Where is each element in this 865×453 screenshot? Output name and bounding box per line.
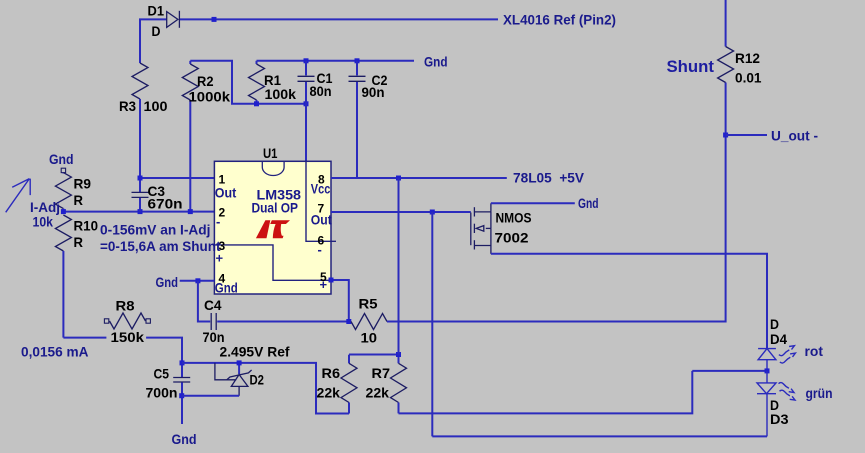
svg-text:-: - [318, 242, 322, 257]
svg-text:R2: R2 [197, 73, 214, 89]
svg-text:C4: C4 [204, 297, 222, 313]
resistor R7 [391, 355, 407, 414]
junction pin5 [329, 278, 334, 283]
LT logo [256, 220, 290, 238]
svg-text:7002: 7002 [495, 229, 529, 245]
wire [139, 99, 141, 192]
svg-text:670n: 670n [148, 196, 183, 212]
wire pin7 [331, 211, 471, 213]
wire pin7 branch down [431, 212, 433, 436]
svg-text:Gnd: Gnd [49, 151, 74, 167]
junction [254, 101, 259, 106]
svg-text:10k: 10k [33, 214, 54, 230]
wire U_out [726, 134, 767, 136]
svg-text:D2: D2 [250, 372, 265, 388]
svg-text:R10: R10 [74, 218, 99, 234]
svg-text:78L05 +5V: 78L05 +5V [513, 169, 585, 185]
svg-text:700n: 700n [146, 385, 178, 401]
resistor R9 [55, 173, 71, 212]
wire D2 anode [182, 395, 239, 397]
capacitor C2 [349, 61, 366, 178]
svg-text:NMOS: NMOS [496, 209, 532, 225]
svg-text:Gnd: Gnd [215, 280, 238, 296]
svg-text:XL4016 Ref (Pin2): XL4016 Ref (Pin2) [503, 12, 616, 28]
svg-text:rot: rot [805, 343, 824, 359]
svg-text:R9: R9 [74, 176, 92, 192]
wire R10 bottom row [63, 337, 106, 339]
junction [138, 209, 143, 214]
junction C5 top [180, 360, 185, 365]
wire after 150k [146, 338, 182, 377]
wire pin1 [140, 177, 214, 179]
svg-text:C5: C5 [154, 366, 170, 382]
junction [346, 319, 351, 324]
svg-text:grün: grün [806, 385, 833, 401]
resistor R3 [132, 63, 148, 99]
junction [188, 209, 193, 214]
wire C1 to U1 [305, 104, 307, 162]
resistor R1 [249, 61, 265, 104]
svg-text:D1: D1 [148, 3, 165, 19]
svg-text:R12: R12 [735, 50, 760, 66]
resistor R8 floating [104, 313, 150, 329]
wire R5 to shunt column [388, 135, 726, 322]
LED D4 arrows [779, 346, 796, 363]
wire shunt column mid [725, 83, 727, 136]
junction [212, 17, 217, 22]
potentiometer arrow [6, 179, 31, 213]
svg-text:R: R [74, 192, 84, 208]
wire Gnd top [257, 60, 415, 62]
svg-text:Gnd: Gnd [578, 195, 599, 211]
op-amp U1 body [214, 161, 336, 294]
junction [195, 278, 200, 283]
LED D3 arrows [779, 383, 796, 401]
svg-text:R3: R3 [119, 98, 136, 114]
wire pin5 [331, 280, 349, 322]
svg-text:-: - [216, 214, 220, 229]
svg-text:2.495V Ref: 2.495V Ref [220, 344, 290, 360]
svg-text:R: R [74, 234, 84, 250]
svg-text:Shunt: Shunt [667, 57, 715, 76]
svg-text:90n: 90n [362, 84, 385, 100]
svg-text:=0-15,6A am Shunt: =0-15,6A am Shunt [100, 238, 221, 254]
svg-text:R6: R6 [322, 365, 341, 381]
svg-text:R5: R5 [359, 296, 378, 312]
svg-text:100k: 100k [265, 86, 297, 102]
wire bottom long [432, 435, 767, 437]
svg-text:100: 100 [144, 98, 168, 114]
junction D2 top [237, 360, 242, 365]
junction [138, 176, 143, 181]
junction [304, 58, 309, 63]
svg-text:22k: 22k [366, 385, 390, 401]
junction [304, 101, 309, 106]
wire [179, 18, 498, 20]
wire nmos source to LEDs [491, 254, 767, 349]
wire R7 column up [398, 178, 400, 355]
svg-text:Dual OP: Dual OP [252, 200, 299, 216]
junction [396, 176, 401, 181]
svg-text:1000k: 1000k [189, 89, 231, 105]
resistor R6 [341, 355, 357, 414]
wire 2.495V row [182, 363, 349, 414]
svg-text:10: 10 [361, 330, 378, 346]
wire R7 bottom row [399, 371, 693, 414]
svg-text:Out: Out [215, 185, 237, 201]
resistor R12 [718, 47, 734, 83]
svg-text:U_out -: U_out - [771, 128, 818, 144]
svg-text:0-156mV an I-Adj: 0-156mV an I-Adj [100, 222, 211, 238]
svg-text:R7: R7 [372, 365, 391, 381]
svg-text:D: D [152, 23, 161, 39]
svg-text:D: D [770, 316, 779, 332]
svg-text:80n: 80n [310, 83, 332, 99]
wire LED mid row [692, 370, 766, 372]
svg-text:0,0156 mA: 0,0156 mA [21, 344, 89, 360]
wire Gnd pin4 [180, 280, 215, 282]
zener D2 [215, 363, 252, 396]
svg-text:Vcc: Vcc [311, 181, 331, 197]
junction R7 top [396, 352, 401, 357]
svg-text:R8: R8 [116, 298, 135, 314]
svg-text:Gnd: Gnd [172, 431, 197, 447]
nmos M1 [471, 203, 491, 254]
svg-text:Gnd: Gnd [424, 54, 448, 70]
svg-text:+: + [320, 277, 328, 292]
wire I-Adj row [63, 211, 214, 213]
svg-text:D3: D3 [770, 411, 789, 427]
capacitor C3 [132, 192, 149, 211]
wire nmos drain to Gnd [491, 202, 575, 204]
svg-text:0.01: 0.01 [735, 70, 762, 86]
LED D4 [758, 349, 776, 371]
LED D3 [757, 371, 776, 437]
junction [355, 58, 360, 63]
junction LED mid [765, 368, 770, 373]
diode D1 [167, 11, 180, 28]
capacitor C5 [173, 378, 190, 425]
wire R6 top [349, 354, 399, 356]
junction [61, 209, 66, 214]
svg-text:Out: Out [311, 212, 332, 228]
resistor R10 [55, 215, 71, 338]
wire [140, 19, 167, 63]
wire pin8 [331, 177, 507, 179]
svg-text:22k: 22k [317, 385, 341, 401]
resistor R5 [351, 314, 388, 330]
open pin square [61, 168, 65, 172]
capacitor C4 [211, 313, 216, 330]
wire to C4 [198, 281, 210, 322]
svg-text:D4: D4 [770, 331, 787, 347]
junction C5 bottom [179, 393, 184, 398]
junction U_out [723, 133, 728, 138]
resistor R2 [182, 61, 198, 212]
wire [190, 61, 306, 104]
wire shunt column top [725, 0, 727, 47]
wire C4 to R5 [217, 321, 349, 323]
svg-text:Gnd: Gnd [156, 274, 179, 290]
svg-text:150k: 150k [111, 329, 145, 345]
capacitor C1 [298, 61, 315, 104]
svg-text:U1: U1 [263, 145, 278, 161]
junction [430, 210, 435, 215]
